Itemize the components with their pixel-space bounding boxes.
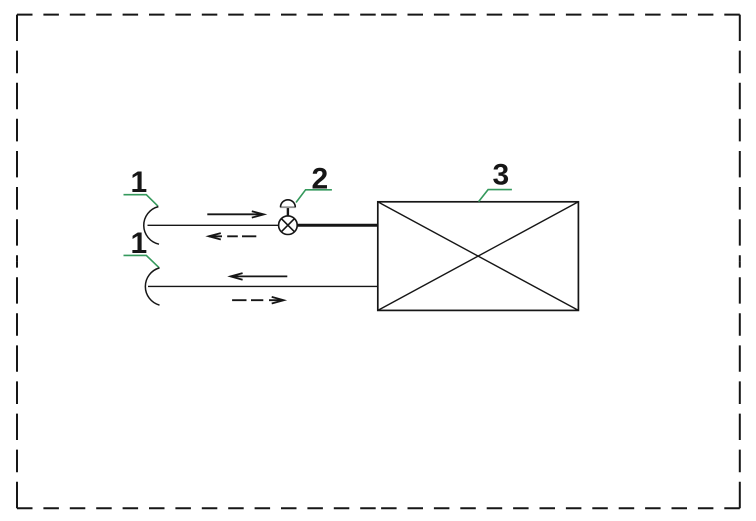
valve V1: crossed circle	[279, 216, 298, 235]
pipe break symbol (bottom pipe)	[145, 268, 159, 305]
flow arrow dashed right (below bottom pipe)	[232, 297, 284, 304]
leader line to label 1 (bottom)	[124, 255, 160, 267]
pipe break symbol (top pipe)	[144, 207, 159, 245]
wire: top supply pipe (thin)	[148, 224, 279, 226]
flow arrow solid left (above bottom pipe)	[231, 273, 288, 280]
valve actuator dome	[280, 200, 295, 207]
flow arrow solid right (above top pipe)	[207, 211, 263, 217]
wire: thick pipe from valve to unit	[297, 224, 378, 227]
unit U1: fan-coil box with cross	[378, 202, 579, 311]
leader line to label 1 (top)	[124, 195, 159, 207]
valve stem	[287, 207, 289, 216]
leader line to label 3	[479, 190, 512, 202]
wire: bottom return pipe (thin)	[148, 285, 378, 287]
svg-text:2: 2	[312, 163, 329, 196]
leader line to label 2	[296, 190, 332, 203]
flow arrow dashed left (below top pipe)	[209, 233, 256, 239]
svg-text:3: 3	[492, 158, 509, 191]
